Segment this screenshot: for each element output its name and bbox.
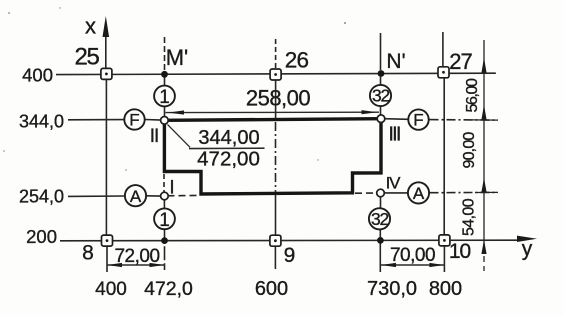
svg-text:32: 32: [371, 209, 389, 229]
svg-text:600: 600: [255, 278, 288, 300]
svg-text:A: A: [130, 187, 142, 206]
svg-text:730,0: 730,0: [367, 278, 417, 300]
svg-text:II: II: [150, 126, 159, 147]
svg-text:472,00: 472,00: [197, 148, 260, 171]
svg-text:y: y: [522, 238, 533, 261]
svg-text:32: 32: [372, 86, 390, 106]
svg-text:M': M': [166, 45, 189, 70]
svg-text:10: 10: [449, 240, 471, 263]
svg-text:9: 9: [284, 244, 296, 267]
svg-text:x: x: [85, 14, 96, 39]
svg-text:90,00: 90,00: [461, 132, 478, 169]
svg-text:472,0: 472,0: [144, 278, 193, 300]
svg-text:N': N': [386, 50, 405, 73]
svg-text:800: 800: [429, 278, 462, 300]
svg-text:8: 8: [82, 242, 94, 265]
svg-text:F: F: [129, 111, 139, 130]
svg-text:1: 1: [159, 210, 170, 231]
svg-text:III: III: [388, 124, 400, 146]
svg-text:258,00: 258,00: [246, 86, 311, 111]
svg-text:I: I: [169, 178, 174, 199]
svg-text:400: 400: [95, 279, 127, 300]
svg-text:F: F: [413, 111, 423, 130]
svg-text:25: 25: [75, 44, 100, 71]
svg-text:54,00: 54,00: [461, 198, 478, 236]
svg-text:56,00: 56,00: [464, 78, 481, 113]
svg-text:IV: IV: [386, 174, 402, 193]
svg-text:400: 400: [22, 65, 53, 86]
svg-text:344,00: 344,00: [198, 127, 259, 149]
svg-text:70,00: 70,00: [390, 245, 435, 266]
svg-text:1: 1: [159, 87, 170, 108]
svg-text:200: 200: [26, 226, 57, 247]
svg-text:26: 26: [285, 48, 309, 73]
svg-text:344,0: 344,0: [19, 112, 64, 132]
svg-text:254,0: 254,0: [19, 186, 64, 206]
svg-text:A: A: [413, 184, 425, 203]
svg-text:27: 27: [449, 49, 472, 74]
svg-text:72,00: 72,00: [114, 246, 159, 267]
